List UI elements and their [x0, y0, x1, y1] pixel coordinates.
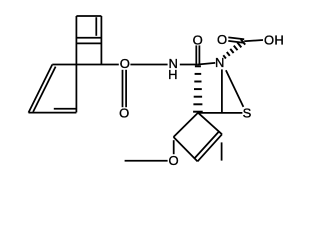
- bond carboxyl C=O lower line: [228, 41, 243, 43]
- bond carboxyl C=O upper line: [228, 37, 244, 39]
- bond carboxyl C to OH bond: [244, 40, 263, 41]
- bond cyclobutene edge D-A: [198, 113, 222, 135]
- bond left vertical (square left edge down to lower ring): [75, 16, 77, 112]
- svg-text:O: O: [119, 106, 129, 121]
- bond double-bond line below square: [76, 42, 101, 44]
- bond cyclobutene edge B-C: [174, 137, 198, 161]
- svg-text:N: N: [215, 55, 224, 70]
- hashed wedge carbonyl C to ring top vertex: [195, 65, 201, 67]
- bond ring N to S diagonal bond: [226, 70, 244, 107]
- bond parallelogram bottom edge: [29, 112, 77, 114]
- bond horizontal bond ring top vertex to S: [198, 112, 242, 114]
- bond parallelogram slant inner double-bond line: [33, 67, 56, 112]
- bond square top edge: [76, 15, 101, 17]
- bond square bottom edge: [76, 37, 101, 39]
- svg-text:O: O: [193, 33, 203, 48]
- bond cyclobutene C=D inner double-bond line: [195, 132, 219, 158]
- bond cyclobutene edge A-B: [174, 113, 199, 137]
- bond amide C=O double line b: [198, 45, 200, 64]
- bond ring N vertical bond: [221, 69, 223, 113]
- bond ester C=O double line a: [122, 70, 124, 107]
- svg-text:S: S: [243, 106, 252, 121]
- bond chain NH to carbonyl C: [180, 64, 198, 66]
- hashed wedge ring N to carboxyl C: [223, 55, 226, 58]
- bond methoxy CH3 bond: [125, 160, 168, 162]
- bond right vertical (square right edge down to chain): [100, 16, 102, 65]
- svg-text:H: H: [168, 67, 177, 82]
- bond amide C=O double line a: [195, 45, 197, 64]
- bond cyclobutene edge C-D: [198, 134, 223, 161]
- bond bond B to methoxy O: [173, 140, 175, 154]
- svg-text:H: H: [274, 32, 283, 47]
- bond chain horizontal left: [52, 64, 119, 66]
- svg-text:O: O: [120, 56, 130, 71]
- svg-text:O: O: [168, 153, 178, 168]
- bond parallelogram bottom inner double-bond line: [54, 108, 76, 110]
- bond parallelogram slant outer edge: [29, 65, 53, 113]
- svg-text:O: O: [264, 32, 274, 47]
- bond chain O to NH: [130, 64, 167, 66]
- bond methyl bond below D: [221, 142, 223, 160]
- bond carbonyl C to ring N: [198, 63, 215, 65]
- svg-text:O: O: [217, 32, 227, 47]
- bond square inner double-bond line (right side): [95, 17, 97, 36]
- bond ester C=O double line b: [125, 70, 127, 107]
